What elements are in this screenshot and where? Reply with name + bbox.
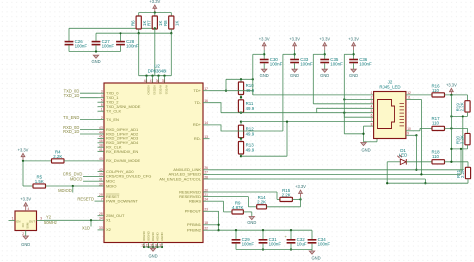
resistor R5 xyxy=(33,174,46,188)
wire left strap vertical xyxy=(22,161,24,186)
RJ45 jack symbol xyxy=(378,100,395,129)
wire RD+ riser xyxy=(282,54,284,131)
wire R20 bottom link xyxy=(451,148,467,150)
wire branch 1 tee wire xyxy=(253,53,264,55)
wire TD- jog xyxy=(210,103,222,113)
svg-text:28: 28 xyxy=(204,175,208,179)
wire R12 top stub xyxy=(240,122,242,126)
junction rail to branch1 xyxy=(252,78,254,80)
RJ45 left pins 1-8 xyxy=(371,91,373,126)
svg-text:100nF: 100nF xyxy=(318,242,331,247)
resistor R14 xyxy=(257,195,267,209)
svg-text:1: 1 xyxy=(101,108,103,112)
junction TD+ node xyxy=(240,96,242,98)
wire R11 bottom stub xyxy=(240,111,242,113)
wire VDD feed left xyxy=(138,33,140,75)
svg-text:2.2K: 2.2K xyxy=(460,135,465,144)
svg-text:2.2K: 2.2K xyxy=(257,200,266,205)
wire branch 1 stem xyxy=(263,50,265,60)
wire VDD rail xyxy=(139,75,172,77)
wire branch 4 stem xyxy=(353,50,355,60)
wire RD+ jog xyxy=(210,125,283,131)
svg-text:+3.3V: +3.3V xyxy=(348,36,359,41)
junction R4 node xyxy=(22,160,24,162)
wire net TX_END xyxy=(80,119,98,121)
wire PFB gnd rail xyxy=(236,249,312,251)
svg-text:100nF: 100nF xyxy=(75,44,88,49)
resistor R9 xyxy=(232,200,244,214)
svg-text:100nF: 100nF xyxy=(300,61,313,66)
svg-text:6: 6 xyxy=(101,103,103,107)
svg-text:1.5K: 1.5K xyxy=(35,179,44,184)
wire analog rail xyxy=(226,78,253,80)
ground R9 ground xyxy=(247,217,256,226)
svg-text:R6: R6 xyxy=(130,20,135,26)
svg-text:10uF: 10uF xyxy=(297,242,307,247)
wire RBIAS stub xyxy=(210,200,224,202)
svg-text:5: 5 xyxy=(101,99,103,103)
power +3.3V branch 1 xyxy=(259,36,270,50)
svg-text:R8: R8 xyxy=(163,20,168,26)
capacitor C30 xyxy=(260,57,283,67)
junction LED_ACT node xyxy=(424,182,426,184)
svg-text:4.87K: 4.87K xyxy=(232,205,244,210)
junction pin6 tee xyxy=(343,112,345,114)
svg-text:43: 43 xyxy=(99,126,103,130)
capacitor C34 xyxy=(308,237,331,247)
svg-text:MDCD: MDCD xyxy=(70,176,82,181)
wire net TXD_0D xyxy=(80,92,98,94)
wire pin8 stub xyxy=(364,125,374,127)
svg-text:AN_EN/LED_ACT/COL: AN_EN/LED_ACT/COL xyxy=(159,176,202,181)
svg-text:35: 35 xyxy=(162,79,166,83)
svg-text:4: 4 xyxy=(28,207,30,211)
svg-text:17: 17 xyxy=(204,87,208,91)
svg-text:MDIO: MDIO xyxy=(106,183,116,188)
wire R15 right wire xyxy=(292,198,300,200)
resistor R12 xyxy=(238,125,254,138)
svg-text:OUT: OUT xyxy=(29,219,36,223)
wire R14 right wire xyxy=(267,206,301,208)
ground oscillator ground xyxy=(21,236,30,247)
svg-text:PWR_DOWN/INT: PWR_DOWN/INT xyxy=(106,198,138,203)
junction strap power node xyxy=(299,198,301,200)
svg-text:U2: U2 xyxy=(154,63,160,68)
svg-text:X1D: X1D xyxy=(82,225,90,230)
oscillator right pin xyxy=(37,219,45,221)
svg-text:GND: GND xyxy=(247,220,256,225)
wire pin9 wire xyxy=(406,134,417,136)
svg-text:RXD_1D: RXD_1D xyxy=(63,129,79,134)
svg-text:25: 25 xyxy=(99,212,103,216)
wire R19 bottom stub xyxy=(467,112,469,116)
wire R19 top stub xyxy=(467,95,469,101)
wire R9 gnd drop xyxy=(251,212,253,216)
svg-text:GND: GND xyxy=(148,254,157,259)
svg-text:27: 27 xyxy=(204,171,208,175)
wire pullup top rail xyxy=(139,12,172,14)
svg-text:3: 3 xyxy=(371,100,373,104)
wire gnd link xyxy=(344,133,363,135)
junction pin7 node xyxy=(240,120,242,122)
junction bottom rail at C27 xyxy=(95,50,97,52)
diode D1 LED xyxy=(397,148,407,165)
wire pin7 line xyxy=(241,121,374,123)
wire pin6 jog xyxy=(344,113,373,118)
wire LED_ACT wire xyxy=(210,178,426,180)
wire bottom gnd bus xyxy=(144,246,162,248)
svg-text:36: 36 xyxy=(156,79,160,83)
ground GND below C27 xyxy=(91,55,100,64)
svg-text:GND: GND xyxy=(361,148,370,153)
wire R7 bottom stub xyxy=(154,27,156,30)
wire LED_SPEED wire xyxy=(210,173,462,175)
svg-text:TX_EN: TX_EN xyxy=(106,117,119,122)
svg-text:30: 30 xyxy=(99,182,103,186)
svg-text:RD+: RD+ xyxy=(193,122,202,127)
connector J2 RJ45_LED body xyxy=(374,92,406,139)
svg-text:50MHz: 50MHz xyxy=(44,220,57,225)
wire R10 top stub xyxy=(240,79,242,82)
wire C27 top stub xyxy=(95,33,97,41)
junction row1b power node xyxy=(450,115,452,117)
wire R13 top stub xyxy=(240,139,242,142)
wire RD- riser xyxy=(286,122,288,157)
wire branch 1 cap bottom xyxy=(263,63,265,69)
junction R7 to rail1 xyxy=(154,27,156,29)
wire branch 3 cap bottom xyxy=(324,63,326,69)
svg-text:110: 110 xyxy=(432,88,440,93)
resistor R11 xyxy=(238,100,254,113)
svg-text:100nF: 100nF xyxy=(270,61,283,66)
wire VDD feed right xyxy=(170,33,172,75)
junction PFB rail node 1 xyxy=(235,229,237,231)
wire net TXD_1D xyxy=(80,97,98,99)
svg-text:100nF: 100nF xyxy=(102,44,115,49)
svg-text:21: 21 xyxy=(204,193,208,197)
wire R12 bottom stub xyxy=(240,138,242,139)
svg-text:6: 6 xyxy=(371,114,373,118)
svg-text:1K: 1K xyxy=(175,21,180,26)
svg-text:7: 7 xyxy=(371,118,373,122)
wire pin12 wire xyxy=(406,94,432,96)
svg-text:39: 39 xyxy=(99,173,103,177)
wire D1 anode wire xyxy=(387,161,400,163)
svg-text:X1: X1 xyxy=(106,218,112,223)
capacitor C32 xyxy=(285,234,307,247)
wire RD- line xyxy=(241,155,287,157)
power +3.3V right column xyxy=(446,82,457,95)
ground branch 3 ground xyxy=(320,69,329,78)
svg-text:5: 5 xyxy=(371,109,373,113)
wire net CRS_DVD xyxy=(83,175,98,177)
svg-text:2: 2 xyxy=(22,232,24,236)
junction branch 1 tee xyxy=(263,53,265,55)
capacitor C29 xyxy=(232,237,255,247)
wire branch4 lower xyxy=(343,113,345,134)
svg-text:100nF: 100nF xyxy=(330,61,343,66)
junction pin8 gnd node xyxy=(362,133,364,135)
svg-text:40: 40 xyxy=(99,157,103,161)
power +3.3V strap rail xyxy=(295,184,306,197)
ground PFB ground xyxy=(309,251,320,261)
svg-text:2: 2 xyxy=(371,96,373,100)
wire net RXD_0D xyxy=(80,129,98,131)
svg-text:R7: R7 xyxy=(146,20,151,26)
svg-text:3: 3 xyxy=(40,216,42,220)
svg-text:2.2K: 2.2K xyxy=(282,192,291,197)
wire net RESETD xyxy=(95,200,98,202)
junction R20 tee xyxy=(460,148,462,150)
ground RJ45 ground xyxy=(361,143,371,153)
wire R8 top stub xyxy=(170,13,172,17)
svg-text:34: 34 xyxy=(99,217,103,221)
wire R21 top stub xyxy=(467,162,469,168)
wire R4 right wire xyxy=(64,160,98,162)
wire C31 bottom stub xyxy=(262,244,264,250)
junction TD- node xyxy=(240,112,242,114)
wire pin10 jog xyxy=(406,130,420,132)
svg-text:RESETD: RESETD xyxy=(77,196,94,201)
svg-text:PFBIN2: PFBIN2 xyxy=(187,228,202,233)
wire shield link xyxy=(364,141,378,143)
wire R4 left wire xyxy=(23,160,52,162)
svg-text:41: 41 xyxy=(99,148,103,152)
power +3.3V branch 4 xyxy=(348,36,359,50)
wire branch1 vertical xyxy=(252,54,254,95)
junction pin2 tee xyxy=(343,98,345,100)
junction rail to TD+ tee xyxy=(225,90,227,92)
svg-text:GND: GND xyxy=(320,73,329,78)
wire VDD pin stub 1 xyxy=(152,76,154,83)
resistor R4 xyxy=(52,149,65,163)
RJ45 contact teeth xyxy=(400,104,405,126)
svg-text:GND: GND xyxy=(21,242,30,247)
junction D1 anode node xyxy=(386,182,388,184)
svg-text:31: 31 xyxy=(99,178,103,182)
wire pin10 rise xyxy=(419,128,421,130)
wire rail1 top xyxy=(69,27,155,29)
junction PFB gnd rail node 3 xyxy=(290,248,292,250)
wire decoupling bottom rail xyxy=(69,51,121,53)
wire LED_LINK riser xyxy=(462,116,464,169)
svg-text:48: 48 xyxy=(144,79,148,83)
svg-text:16: 16 xyxy=(204,99,208,103)
wire C31 top stub xyxy=(262,230,264,240)
wire C32 bottom stub xyxy=(290,244,292,250)
wire LED_ACT drop xyxy=(424,179,426,183)
wire D1 anode drop xyxy=(386,162,388,183)
wire R15 left stub xyxy=(277,198,280,200)
wire RESERVED2 drop xyxy=(247,197,249,207)
wire branch4 vertical xyxy=(343,54,345,112)
wire analog rail drop xyxy=(225,79,227,90)
wire pin10 to R17 xyxy=(420,127,432,129)
capacitor C31 xyxy=(259,237,282,247)
svg-text:TXD_1D: TXD_1D xyxy=(64,93,80,98)
wire branch 2 stem xyxy=(294,50,296,60)
wire 50MHz wire xyxy=(44,219,98,221)
wire branch 4 cap bottom xyxy=(353,63,355,69)
resistor R19 xyxy=(456,101,471,112)
svg-text:VDD33: VDD33 xyxy=(153,85,157,95)
junction row3 power node xyxy=(450,161,452,163)
junction R10 top node xyxy=(240,78,242,80)
svg-text:110: 110 xyxy=(432,154,440,159)
svg-text:TD+: TD+ xyxy=(193,88,201,93)
oscillator U1 50MHz body xyxy=(15,211,37,231)
junction RD- tee on pin7 xyxy=(286,120,288,122)
resistor R20 xyxy=(456,133,471,144)
svg-text:14: 14 xyxy=(204,121,208,125)
wire R6 top stub xyxy=(138,13,140,17)
junction PFB gnd rail node 2 xyxy=(262,248,264,250)
wire pin9 drop xyxy=(415,135,417,170)
junction branch 2 tee xyxy=(293,53,295,55)
wire PFB gnd stub xyxy=(311,250,313,252)
wire RESERVED2 wire xyxy=(210,196,249,198)
svg-text:1: 1 xyxy=(371,91,373,95)
resistor R13 xyxy=(238,142,254,155)
wire C34 bottom stub xyxy=(311,244,313,250)
svg-text:44: 44 xyxy=(99,130,103,134)
svg-text:4: 4 xyxy=(101,94,103,98)
resistor R21 xyxy=(456,167,471,178)
svg-text:DGND: DGND xyxy=(151,231,155,241)
svg-text:+3.3V: +3.3V xyxy=(289,36,300,41)
svg-text:50M: 50M xyxy=(26,222,30,228)
svg-text:+3.3V: +3.3V xyxy=(149,0,160,4)
junction row1 power node xyxy=(450,94,452,96)
wire rail2 top xyxy=(96,32,171,34)
resistor R8 xyxy=(163,16,180,29)
wire shield stub xyxy=(376,139,378,142)
ground U2 bottom ground xyxy=(148,248,157,258)
wire C32 top stub xyxy=(290,230,292,240)
svg-text:33: 33 xyxy=(99,226,103,230)
resistor R10 xyxy=(238,82,254,95)
svg-text:XO: XO xyxy=(21,222,25,227)
wire C34 top stub xyxy=(311,230,313,240)
junction pin11 to LED_SPEED xyxy=(420,173,422,175)
RJ45 right pins 12,11,10,9 xyxy=(407,91,411,135)
wire branch 2 tee wire xyxy=(283,53,295,55)
svg-text:RX_ER/MDIX_EN: RX_ER/MDIX_EN xyxy=(106,149,138,154)
wire strap power riser xyxy=(300,197,302,207)
wire VDD pin stub 0 xyxy=(146,76,148,83)
wire net RXD_1D xyxy=(80,133,98,135)
svg-text:26: 26 xyxy=(204,166,208,170)
wire pin2 line xyxy=(344,98,373,100)
junction PFB rail node 2 xyxy=(262,229,264,231)
svg-text:GND: GND xyxy=(311,256,320,261)
junction row2b power node xyxy=(450,148,452,150)
svg-text:23: 23 xyxy=(204,208,208,212)
wire TD+ line to RJ45 pin1 xyxy=(253,94,374,96)
wire branch 3 tee wire xyxy=(313,53,324,55)
ground branch 4 ground xyxy=(349,69,358,78)
wire X1D stub xyxy=(90,220,92,226)
svg-text:PFBIN1: PFBIN1 xyxy=(187,222,202,227)
resistor R16 xyxy=(431,84,444,97)
svg-text:AGND: AGND xyxy=(156,231,160,241)
wire LED_SPEED riser xyxy=(460,149,462,175)
wire TD+ stub xyxy=(210,90,253,92)
svg-text:8: 8 xyxy=(371,122,373,126)
junction C28 rail tee xyxy=(120,32,122,34)
svg-text:IOGND: IOGND xyxy=(147,230,151,241)
svg-text:TX_CLK: TX_CLK xyxy=(106,109,121,114)
svg-text:4: 4 xyxy=(371,105,373,109)
wire R6 bottom stub xyxy=(138,29,140,33)
svg-text:24: 24 xyxy=(204,198,208,202)
junction pullup rail center xyxy=(154,11,156,13)
svg-text:AGND: AGND xyxy=(160,231,164,241)
wire C29 bottom stub xyxy=(235,244,237,250)
svg-text:49.9: 49.9 xyxy=(246,106,255,111)
wire branch3 vertical xyxy=(312,54,314,104)
svg-text:2.2K: 2.2K xyxy=(460,102,465,111)
junction VDD pin 1 xyxy=(151,75,153,77)
wire oscillator gnd stub xyxy=(25,231,27,236)
wire R5 left wire xyxy=(23,185,33,187)
svg-text:7: 7 xyxy=(101,197,103,201)
wire D1 cathode wire xyxy=(406,161,432,163)
junction RD- bottom node xyxy=(240,155,242,157)
wire R17 right wire xyxy=(445,127,468,129)
svg-text:46: 46 xyxy=(99,139,103,143)
resistor R17 xyxy=(431,116,444,130)
svg-text:49.9: 49.9 xyxy=(246,148,255,153)
svg-text:+3.3V: +3.3V xyxy=(20,197,31,202)
wire net MDCD xyxy=(83,180,98,182)
svg-text:GND: GND xyxy=(349,73,358,78)
junction LINK riser tee xyxy=(462,115,464,117)
junction 50MHz label node xyxy=(90,219,92,221)
wire pin11 wire xyxy=(406,98,422,100)
wire R20 top stub xyxy=(467,128,469,133)
svg-text:RX_DV/MII_MODE: RX_DV/MII_MODE xyxy=(106,158,141,163)
wire MDIO wire xyxy=(46,185,98,187)
U2 right pin stubs, numbers and names xyxy=(159,87,209,233)
wire RBIAS drop xyxy=(223,201,225,212)
wire MDIO label stub xyxy=(72,186,74,193)
wire TD-/pin5 line xyxy=(221,112,374,114)
svg-text:+3.3V: +3.3V xyxy=(446,82,457,87)
svg-text:110: 110 xyxy=(432,121,440,126)
oscillator left pin xyxy=(9,219,16,221)
wire pin11 drop xyxy=(420,99,422,174)
svg-text:AVD33: AVD33 xyxy=(159,85,163,95)
wire LED_LINK wire xyxy=(210,169,463,171)
wire RESERVED1 drop xyxy=(276,192,278,199)
junction VDD pin 3 xyxy=(163,75,165,77)
svg-text:PFBOUT: PFBOUT xyxy=(185,209,202,214)
svg-text:2.2K: 2.2K xyxy=(53,154,62,159)
svg-text:+3.3V: +3.3V xyxy=(18,147,29,152)
wire R9 left stub xyxy=(224,211,233,213)
wire PFBIN1 wire xyxy=(210,224,219,226)
svg-text:EN: EN xyxy=(16,219,20,223)
capacitor C35 xyxy=(320,57,343,67)
svg-text:+3.3V: +3.3V xyxy=(319,36,330,41)
svg-text:20: 20 xyxy=(204,188,208,192)
resistor R7 xyxy=(146,16,163,29)
svg-text:47: 47 xyxy=(150,79,154,83)
wire pin3 line xyxy=(313,103,373,105)
capacitor C36 xyxy=(349,57,372,67)
op-amp U2 DP83848I PHY body xyxy=(104,83,203,243)
